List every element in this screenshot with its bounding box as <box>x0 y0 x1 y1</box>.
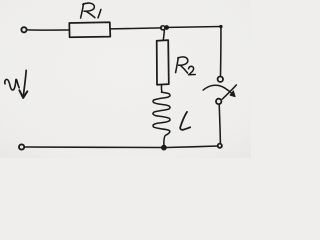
switch upper contact <box>218 77 223 82</box>
inductor L <box>153 92 170 131</box>
label L <box>180 112 190 130</box>
wire R1 to node A <box>110 28 161 29</box>
resistor R1 <box>69 22 110 37</box>
wire node A to R2 <box>163 30 164 40</box>
switch motion arrow <box>203 85 232 94</box>
node B (bottom junction) <box>162 145 167 150</box>
wire right branch lower <box>219 104 220 144</box>
top-right corner dot <box>219 25 222 28</box>
label R1 <box>81 3 101 18</box>
arrow for U (downward) <box>19 70 27 98</box>
wire R2 to L <box>160 85 162 92</box>
wire bottom right segment <box>167 146 218 148</box>
wire L to node B <box>164 131 170 145</box>
terminal bottom-left <box>19 144 24 149</box>
wire right branch upper <box>220 27 222 77</box>
node A (top junction) <box>161 26 165 30</box>
terminal top-left <box>21 27 26 32</box>
label R2 <box>176 57 196 75</box>
bottom-right corner node <box>218 144 222 148</box>
wire bottom left segment <box>25 146 162 149</box>
wire terminal to R1 <box>27 29 69 31</box>
wire node A to top-right corner <box>169 26 221 29</box>
switch lower contact <box>216 99 221 104</box>
resistor R2 <box>157 40 169 85</box>
switch blade <box>222 85 236 99</box>
label U (input voltage) <box>5 79 19 90</box>
